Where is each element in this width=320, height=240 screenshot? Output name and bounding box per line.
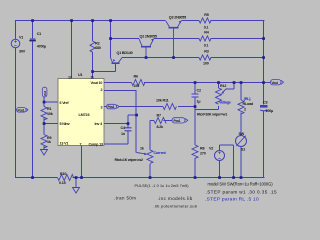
junction (195,83): [194, 81, 197, 84]
junction (128,124): [127, 122, 130, 125]
svg-text:10k R11: 10k R11: [156, 99, 169, 103]
wire RLoad branch: [240, 82, 242, 136]
svg-text:S1: S1: [241, 148, 245, 152]
svg-text:Comp 13: Comp 13: [89, 143, 103, 147]
voltage source V2: [215, 151, 225, 161]
wire pin3 line y106: [104, 106, 195, 108]
wire line y38 right: [154, 38, 264, 40]
junction (33,21): [31, 19, 34, 22]
svg-text:Current: Current: [154, 151, 167, 155]
svg-text:13 V1: 13 V1: [60, 142, 69, 146]
wire C4 bottom to comp pin: [104, 131, 128, 144]
junction (137,115): [135, 114, 138, 117]
flag Vout: [271, 80, 284, 85]
switch S1: [236, 136, 247, 147]
svg-text:7: 7: [80, 143, 82, 147]
capacitor C4: [125, 128, 132, 131]
junction (219,83): [217, 81, 220, 84]
svg-text:LM723: LM723: [79, 113, 90, 117]
svg-text:Inv 4: Inv 4: [95, 122, 104, 126]
svg-text:Rtot=10K wiper=w1: Rtot=10K wiper=w1: [197, 113, 227, 117]
svg-text:C2: C2: [197, 89, 201, 93]
wire line y38 left: [110, 38, 139, 40]
junction (76,178): [75, 176, 78, 179]
potentiometer Voltage: [216, 88, 227, 104]
svg-text:6 Vref: 6 Vref: [60, 101, 70, 105]
wire vout line y82: [104, 82, 264, 84]
junction (111,39): [109, 37, 112, 40]
svg-text:model SW SW(Ron=1u Roff=1000G): model SW SW(Ron=1u Roff=1000G): [208, 182, 274, 187]
wire S1 control: [233, 145, 235, 178]
ground below R9: [41, 150, 48, 156]
svg-text:1µ: 1µ: [197, 100, 201, 104]
wire R7 to flag: [164, 120, 173, 122]
ground at pin7 rail: [73, 188, 80, 194]
resistor R1: [41, 107, 47, 120]
junction (241,178): [240, 176, 243, 179]
flag Pos1 at input: [17, 108, 29, 113]
junction (33,178): [31, 176, 34, 179]
resistor R4: [199, 36, 211, 41]
wire pin2 to current wiper: [104, 91, 137, 153]
svg-text:Voltage: Voltage: [219, 101, 231, 105]
junction (264,58): [262, 56, 265, 59]
wire pin4 wire: [104, 123, 128, 125]
svg-text:.STEP param RL .5 10: .STEP param RL .5 10: [205, 197, 259, 203]
junction (264,39): [262, 37, 265, 40]
wire pin7 ground lead: [81, 146, 83, 179]
svg-text:0.1: 0.1: [204, 44, 209, 48]
svg-text:.lib potentiometer.sub: .lib potentiometer.sub: [154, 204, 198, 209]
wire line y57: [122, 57, 264, 59]
junction (93,72): [91, 70, 94, 73]
svg-text:0.1: 0.1: [204, 26, 209, 30]
svg-text:Q3 2N3055: Q3 2N3055: [169, 15, 186, 19]
svg-text:RLoad: RLoad: [243, 102, 254, 106]
svg-text:Vref: Vref: [43, 91, 47, 96]
wire current pot top: [150, 121, 154, 151]
capacitor C2: [192, 94, 199, 97]
resistor R7: [154, 118, 166, 124]
transistor Q1: [111, 58, 123, 72]
svg-text:.tran 50m: .tran 50m: [114, 196, 136, 201]
resistor R10: [58, 175, 74, 181]
wire pin12 lead: [71, 20, 73, 78]
svg-text:2: 2: [244, 108, 246, 112]
resistor R2: [90, 41, 95, 52]
junction (220,178): [218, 176, 221, 179]
junction (93,21): [91, 19, 94, 22]
svg-text:R12: R12: [220, 84, 226, 88]
svg-text:U1: U1: [78, 73, 82, 77]
resistor R8: [192, 145, 198, 158]
resistor RLoad: [238, 100, 244, 114]
svg-text:3: 3: [101, 106, 103, 110]
svg-text:12: 12: [68, 75, 72, 79]
wire right vertical: [263, 20, 265, 178]
IC U1 LM723 box: [58, 79, 104, 146]
svg-text:11: 11: [90, 75, 94, 79]
svg-text:0.15: 0.15: [59, 181, 66, 185]
junction (146,58): [145, 56, 148, 59]
junction (234,178): [232, 176, 235, 179]
svg-text:Rtot=1K wiper=w2: Rtot=1K wiper=w2: [115, 158, 143, 162]
svg-text:.STEP param w1 .30 0.35 .15: .STEP param w1 .30 0.35 .15: [206, 190, 278, 195]
transistor Q3: [166, 21, 182, 57]
svg-text:Pos1: Pos1: [108, 105, 115, 109]
svg-text:220: 220: [134, 84, 140, 88]
capacitor C1: [29, 38, 35, 41]
wire pot bottom link: [195, 106, 219, 110]
wire S1 main bottom: [240, 147, 242, 179]
wire top rail: [15, 20, 265, 22]
svg-text:8.2k: 8.2k: [157, 125, 165, 129]
wire voltage pot wiper: [227, 82, 235, 89]
junction (234,83): [233, 81, 236, 84]
svg-text:{RL}: {RL}: [244, 97, 252, 101]
svg-text:680: 680: [95, 46, 101, 50]
capacitor C3: [260, 105, 268, 111]
wire Q1 emitter vertical: [110, 20, 112, 58]
svg-text:R5: R5: [204, 13, 208, 17]
transistor Q2: [139, 39, 154, 57]
junction (195,178): [194, 176, 197, 179]
wire V2 leads: [220, 145, 234, 178]
svg-text:C1: C1: [37, 32, 41, 36]
svg-text:Q1 BD140: Q1 BD140: [117, 51, 133, 55]
junction (195,107): [194, 105, 197, 108]
svg-text:PULSE(1 -1 0 1u 1u 2m5 7m5): PULSE(1 -1 0 1u 1u 2m5 7m5): [135, 184, 189, 188]
junction (150,178): [149, 176, 152, 179]
wire C1 leads: [32, 20, 34, 178]
svg-text:100: 100: [203, 62, 209, 66]
wire ground2 stub: [75, 178, 77, 188]
svg-text:Pos1: Pos1: [18, 108, 25, 112]
resistor R3: [199, 55, 211, 60]
wire C2 leads: [194, 82, 196, 107]
svg-text:4700µ: 4700µ: [37, 45, 46, 49]
svg-text:V2: V2: [209, 147, 213, 151]
flag Pos1 at pin3: [107, 104, 120, 109]
resistor R11: [163, 104, 176, 110]
wire R2 leads and pin11: [92, 20, 94, 78]
svg-text:R8: R8: [200, 147, 204, 151]
svg-text:Pos1: Pos1: [174, 119, 181, 123]
wire R8 branch: [194, 110, 196, 178]
junction (72,21): [70, 19, 73, 22]
junction (241,83): [240, 81, 243, 84]
svg-text:Q2 2N3055: Q2 2N3055: [140, 35, 157, 39]
wire Q1 base to node: [93, 64, 116, 72]
junction (44,124): [43, 122, 46, 125]
voltage source V1: [11, 39, 20, 48]
resistor R5: [199, 18, 211, 23]
wire vref chain: [44, 97, 58, 150]
wire voltage pot top lead: [218, 82, 220, 88]
svg-text:30V: 30V: [19, 50, 26, 54]
svg-text:Vout 10: Vout 10: [91, 81, 103, 85]
svg-text:270: 270: [200, 152, 206, 156]
svg-text:R7: R7: [157, 114, 161, 118]
wire V1 top lead: [15, 20, 17, 39]
junction (264,83): [262, 81, 265, 84]
potentiometer Current: [137, 150, 154, 163]
wire V1 bottom lead: [15, 48, 17, 178]
svg-text:100µ: 100µ: [266, 109, 274, 113]
resistor R6: [132, 80, 145, 86]
svg-text:2: 2: [101, 88, 103, 92]
junction (44,102): [43, 101, 46, 104]
flag Pos1 at R7: [172, 118, 188, 123]
svg-text:R10: R10: [60, 172, 66, 176]
resistor R9: [41, 135, 47, 148]
junction (82,178): [80, 176, 83, 179]
svg-text:C3: C3: [263, 101, 267, 105]
wire vout flag stub: [264, 82, 271, 84]
junction (111,21): [109, 19, 112, 22]
wire pin4 to pin2 link: [128, 115, 137, 124]
svg-text:R2: R2: [95, 42, 99, 46]
svg-text:V1: V1: [19, 36, 23, 40]
svg-text:R6: R6: [134, 75, 138, 79]
wire C4 top lead: [127, 124, 129, 128]
svg-text:SW: SW: [239, 132, 245, 136]
svg-text:R1: R1: [47, 107, 51, 111]
junction (174,58): [172, 56, 175, 59]
wire current pot bottom: [149, 164, 151, 178]
svg-text:5 NInv: 5 NInv: [60, 122, 71, 126]
flag Vref vertical: [42, 87, 47, 97]
wire bottom rail: [15, 177, 265, 179]
svg-text:R3: R3: [204, 49, 208, 53]
svg-text:.inc models.lib: .inc models.lib: [158, 196, 193, 201]
